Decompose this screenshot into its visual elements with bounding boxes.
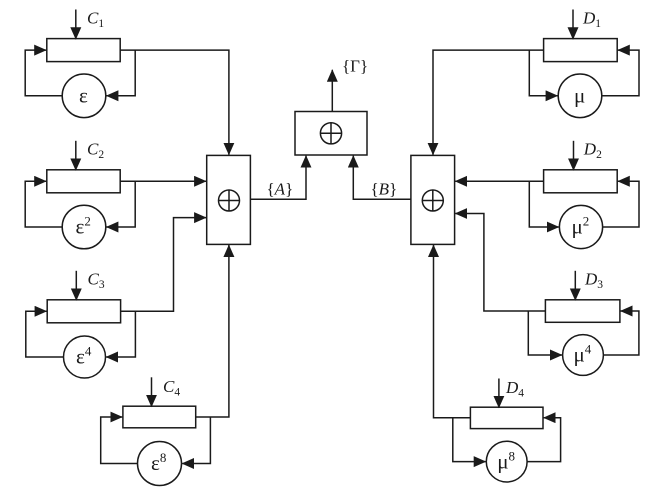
wire R7 output to adder B right lower — [455, 214, 545, 312]
svg-text:D2: D2 — [583, 140, 602, 162]
svg-text:ε: ε — [79, 84, 88, 108]
multiplier M4 (mu^8 feedback circle) — [486, 441, 527, 482]
svg-text:μ2: μ2 — [572, 214, 590, 239]
wire R4 feedback left — [101, 417, 138, 464]
register R3 (left unit 3 shift register) — [47, 300, 120, 323]
wire R1 output to adder A top — [120, 50, 229, 155]
svg-text:C4: C4 — [163, 377, 180, 399]
wire D2 input — [573, 141, 575, 171]
svg-text:ε8: ε8 — [151, 450, 166, 475]
wire R6 feedback right — [603, 181, 639, 227]
multiplier E2 (epsilon^2 feedback circle) — [62, 205, 106, 249]
multiplier E4 (epsilon^8 feedback circle) — [138, 442, 182, 486]
svg-text:D3: D3 — [584, 270, 603, 292]
svg-text:C1: C1 — [87, 9, 104, 31]
wire C2 input — [75, 141, 77, 171]
wire R2 output to adder A left upper — [120, 180, 206, 182]
register R7 (right unit 3 shift register) — [545, 300, 620, 323]
svg-text:D1: D1 — [582, 9, 601, 31]
svg-text:ε4: ε4 — [76, 344, 92, 369]
adder U3 (output XOR block) — [295, 112, 367, 156]
register R5 (right unit 1 shift register) — [544, 39, 618, 62]
wire R6 output to adder B right upper — [455, 180, 543, 182]
wire R2 feedback left — [25, 181, 62, 227]
register R4 (left unit 4 shift register) — [123, 406, 196, 428]
wire R4 output to adder A bottom — [196, 245, 229, 417]
register R1 (left unit 1 shift register) — [47, 39, 120, 62]
wire R8 feedback right — [527, 418, 561, 462]
svg-text:C2: C2 — [87, 140, 104, 162]
multiplier M3 (mu^4 feedback circle) — [563, 335, 604, 376]
wire R5 feedback right — [602, 50, 639, 96]
register R8 (right unit 4 shift register) — [470, 407, 543, 428]
svg-text:{Γ}: {Γ} — [342, 57, 368, 76]
svg-text:D4: D4 — [505, 378, 524, 400]
wire R3 feedback left — [26, 311, 64, 357]
wire R3 feedback right — [106, 311, 135, 357]
wire C3 input — [75, 271, 77, 301]
wire C1 input — [75, 10, 77, 40]
wire Gamma output — [331, 70, 333, 112]
svg-text:μ: μ — [574, 84, 585, 108]
wire R8 output to adder B bottom — [434, 245, 471, 418]
wire R5 output to adder B top — [433, 50, 544, 155]
wire R1 feedback right — [106, 50, 135, 96]
wire R7 feedback left — [528, 311, 562, 355]
wire R5 feedback left — [529, 50, 557, 96]
wire D1 input — [572, 10, 574, 40]
wire R3 output to adder A left lower — [121, 218, 207, 312]
svg-text:μ4: μ4 — [574, 342, 592, 367]
svg-text:C3: C3 — [88, 270, 105, 292]
adder U2 (XOR block B) — [411, 155, 455, 244]
multiplier E1 (epsilon feedback circle) — [62, 74, 106, 118]
wire C4 input — [151, 377, 153, 407]
wire B output to adder U3 — [353, 156, 411, 200]
wire R6 feedback left — [529, 181, 559, 227]
wire D3 input — [574, 271, 576, 301]
wire R4 feedback right — [182, 417, 210, 464]
wire A output to adder U3 — [250, 156, 306, 200]
register R2 (left unit 2 shift register) — [47, 170, 120, 193]
wire R2 feedback right — [106, 181, 135, 227]
multiplier M2 (mu^2 feedback circle) — [559, 205, 602, 248]
multiplier M1 (mu feedback circle) — [558, 74, 602, 118]
svg-text:ε2: ε2 — [76, 214, 91, 239]
multiplier E3 (epsilon^4 feedback circle) — [64, 336, 106, 378]
register R6 (right unit 2 shift register) — [544, 170, 618, 193]
wire R1 feedback left — [25, 50, 62, 96]
wire D4 input — [498, 379, 500, 408]
svg-text:{B}: {B} — [371, 179, 398, 198]
wire R8 feedback left — [453, 418, 486, 462]
svg-text:μ8: μ8 — [497, 448, 515, 473]
svg-text:{A}: {A} — [267, 179, 294, 198]
wire R7 feedback right — [603, 311, 639, 355]
adder U1 (XOR block A) — [207, 155, 251, 244]
